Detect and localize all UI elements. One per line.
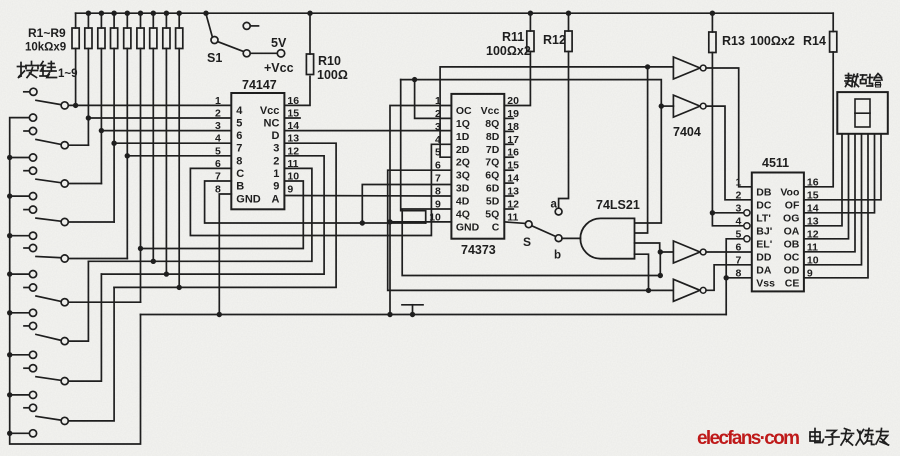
74147 pin 5 (8) [215,145,242,167]
4511 pin 16 (Voo) [780,176,818,198]
logo elecfans.com [697,428,800,449]
resistor R5 [124,28,131,49]
wire column R5 [125,11,130,259]
wire 74373 OC to ground rail [387,106,451,318]
wire 74147 NC stub [284,117,300,119]
label 5V +Vcc [264,36,294,75]
74373 pin 8 (4D) [435,186,470,208]
IC U4 4511 BCD to 7-seg [752,173,804,292]
IC U2 74373 latch [451,94,504,239]
wire 74147 A out to 74373 4D [284,195,451,198]
74147 pin 15 (NC) [264,108,300,130]
wire 74147 Vcc pin16 to R10 [284,77,310,106]
wire key9 row and riser [68,287,114,421]
74373 pin 4 (2D) [435,134,470,156]
wire inverter A out to 4511 DB [706,68,752,187]
4511 pin 11 (OC) [784,241,819,263]
74147 pin 1 (4) [215,95,243,117]
logo 电子发烧友 [810,429,889,446]
ground symbol [402,305,423,317]
74373 pin 19 (8Q) [485,108,519,130]
label 74LS21 [596,198,640,212]
wire row key8 to 74147 pin12 [101,156,324,274]
wire 74373 3Q to row and 7404 [388,170,674,293]
wire 4511 segment output 1 [804,134,842,226]
IC U1 74147 priority encoder [231,93,284,209]
wire column R8 [164,11,169,277]
74373 pin 18 (8D) [486,121,519,143]
wire gate input 4 [635,254,649,290]
7-segment display [837,92,888,134]
74373 pin 5 (2Q) [435,147,470,169]
74373 pin 12 (5Q) [485,199,519,221]
wire 4511 segment output 2 [804,134,849,239]
inverter B 7404 [673,95,706,117]
resistor R11 [527,31,534,52]
74147 pin 3 (6) [215,120,242,142]
wire 4511 segment output 5 [804,134,868,278]
wire 74147 pin2 feed [88,117,231,119]
key bus spare contact [7,430,37,437]
resistor R4 [111,28,118,49]
label 74147 [242,78,277,92]
74373 pin 7 (3D) [435,173,470,195]
label S1 [207,51,222,65]
resistor R6 [137,28,144,49]
74373 pin 2 (1Q) [435,108,470,130]
4511 pin 10 (OD) [784,254,819,276]
wire 74147 C out wrap [190,144,451,235]
4511 pin 3 (LT') [735,202,770,224]
4511 pin 8 (Vss) [735,267,775,289]
label 74373 [461,243,496,257]
4511 pin 2 (DC) [735,189,771,211]
resistor R12 [565,31,572,52]
wire key3 row [68,183,101,185]
4511 pin 4 (BJ') [735,215,772,237]
resistor R8 [163,28,170,49]
74373 pin 10 (GND) [429,211,479,233]
wire key2 row [68,144,88,146]
wire gate input 3 [635,243,660,252]
wire R11 to 74373 Vcc pin20 [504,11,533,106]
wire column R9 [177,11,182,291]
74373 pin 13 (5D) [486,186,519,208]
wire key8 row and riser [68,274,101,381]
wire column R3 [99,11,104,184]
wire Vcc top bus [76,12,834,14]
inverter D 7404 [673,279,706,301]
wire latch line B to 7404 and gate [401,80,664,223]
4511 pin 15 (OF) [785,189,819,211]
wire 74147 D out to 74373 1D [284,130,451,132]
wire row key7 to 74147 pin11 [88,168,312,261]
wire row key9 to 74147 pin13 [114,143,336,287]
wire 74147 B out wrap [205,181,426,223]
key switch 2 [24,114,68,149]
wire inverter B out to 4511 DC [706,106,752,200]
wire 74373 GND pin10 [390,221,451,223]
AND gate U3 74LS21 [580,218,634,258]
74373 pin 3 (1D) [435,121,470,143]
wire R10 top [307,11,312,55]
inverter A 7404 [673,57,706,79]
label 7404 [673,125,701,139]
74147 pin 10 (9) [273,171,299,193]
resistor R9 [176,28,183,49]
74373 pin 14 (6D) [486,173,519,195]
wire 4511 segment output 3 [804,134,855,252]
resistor R13 [709,32,716,53]
74373 pin 9 (4Q) [435,199,470,221]
label 按键1~9 (keys 1-9) [18,62,78,81]
resistor R14 [830,32,837,53]
wire ground rail [141,314,727,316]
wire column R1 [73,13,78,108]
wire latch line A drop to gate [635,67,648,233]
wire 74147 pin4 feed [114,142,231,144]
wire column R4 [111,11,116,223]
wire key5 row [68,258,127,260]
switch S latch enable select [504,208,562,241]
wire key6 row [68,301,140,303]
74147 pin 16 (Vcc) [260,95,299,117]
label R10 100Ω [317,54,348,82]
resistor R10 [306,54,313,75]
74373 pin 16 (7Q) [485,147,519,169]
wire 74147 GND to rail [217,194,232,317]
wire 74373 1Q riser to latch line B [412,77,452,119]
wire 4511 segment output 4 [804,134,862,265]
wire 4511 segment output 7 [804,134,881,200]
wire key4 row [68,221,114,223]
wire 4511 segment output 6 [804,134,875,213]
4511 pin 6 (DD) [735,241,771,263]
wire row key6 to 74147 pin10 [141,181,304,249]
key switch 7 [7,309,68,345]
key switch 3 [7,154,68,187]
wire key common bus [10,118,141,444]
wire inverter C out to 4511 DD [706,251,752,253]
label 数码管 (7-seg display) [845,74,882,88]
4511 pin 7 (DA) [735,254,771,276]
74147 pin 12 (2) [273,145,299,167]
wire latch line A from 74373 2Q [440,64,673,157]
wire inverter D out to 4511 DA [706,265,752,291]
74147 pin 4 (7) [215,133,242,155]
label a [551,199,558,211]
wire R14 to 4511 VDD [804,13,833,187]
wire 74373 4Q to row and 7404 [402,209,673,278]
key switch 9 [7,391,68,424]
74373 pin 15 (6Q) [485,160,519,182]
label R11 100Ωx2 [486,30,531,58]
label R13 100Ωx2 R14 [722,34,826,48]
label R12 [543,33,566,47]
resistor R7 [150,28,157,49]
wire column R2 [86,11,91,146]
key switch 4 [7,193,68,226]
4511 pin 5 (EL') [735,228,772,250]
wire 74147 pin5 feed [127,155,231,157]
resistor R2 [85,28,92,49]
4511 pin 1 (DB) [735,176,771,198]
resistor R1 [72,28,79,49]
4511 pin 13 (OA) [784,215,819,237]
label b [554,250,561,262]
wire R12 to contact a [559,11,572,209]
label 4511 [762,156,789,170]
4511 pin 14 (OG) [783,202,819,224]
wire rail to 4511 LE and Vss [724,239,752,315]
key switch 5 [7,232,68,262]
label R1~R9 10kΩx9 [25,26,66,54]
wire B row link to latch line [401,80,426,223]
74147 pin 6 (C) [215,158,244,180]
74147 pin 9 (A) [271,184,293,206]
wire inverter B input stub [661,105,673,107]
74147 pin 11 (1) [273,158,298,180]
74147 pin 14 (D) [271,120,299,142]
74373 pin 20 (Vcc) [481,95,520,117]
74373 pin 6 (3Q) [435,160,470,182]
wire R13 to 4511 LT and BI [710,11,744,226]
74147 pin 7 (B) [215,171,244,193]
wire 74147 pin3 feed [101,130,231,132]
4511 pin 9 (CE) [785,267,813,289]
switch S1 [203,11,284,58]
wire key7 row and riser [68,261,88,341]
4511 pin 12 (OB) [784,228,819,250]
key switch 1 [24,88,68,109]
74147 pin 2 (5) [215,108,242,130]
key switch 8 [7,351,68,385]
resistor R3 [98,28,105,49]
key switch 6 [7,271,68,306]
wire column R7 [151,11,156,264]
wire column R6 [138,11,143,303]
wire key1 row to 74147 pin1 [68,104,231,106]
wire gate output to contact b [562,237,581,239]
74147 pin 13 (3) [273,133,299,155]
74147 pin 8 (GND) [215,184,261,206]
inverter C 7404 [673,241,706,263]
74373 pin 17 (7D) [486,134,519,156]
label S [523,235,531,249]
74373 pin 1 (OC) [435,95,472,117]
74373 pin 11 (C) [492,211,519,233]
wire B row riser to 74373 3D [360,185,452,226]
